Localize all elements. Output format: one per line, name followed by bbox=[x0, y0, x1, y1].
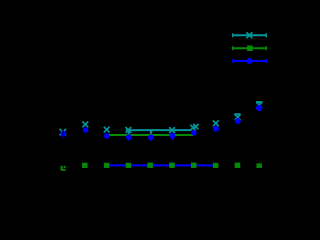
blue error stems below circles bbox=[63, 137, 172, 141]
left axis spine (black, erases marker strips) bbox=[62, 100, 65, 169]
legend entry 3: blue errorbar line with caps and circle marker bbox=[232, 59, 267, 63]
green square markers (bottom band) bbox=[61, 163, 262, 171]
cyan x markers and error stems bbox=[60, 102, 263, 135]
legend entry 2: green errorbar line with caps and square marker bbox=[232, 46, 267, 50]
blue series connecting line (bottom band) bbox=[107, 164, 216, 166]
cyan series connecting line (flat segment) bbox=[126, 129, 191, 131]
blue circle markers bbox=[60, 105, 262, 140]
green series connecting line (flat segment, mid band) bbox=[107, 134, 194, 136]
legend entry 1: cyan errorbar line with caps and x marker bbox=[232, 32, 267, 38]
bottom axis spine (black, erases square bottoms) bbox=[63, 168, 273, 169]
